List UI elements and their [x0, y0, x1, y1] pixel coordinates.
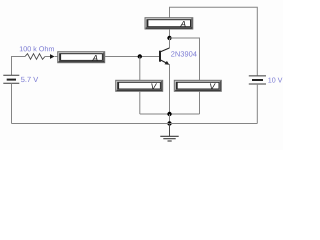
- resistor R1: [25, 54, 45, 60]
- node: bottom rail junction dot: [167, 121, 171, 125]
- wire: collector node down to transistor collector: [169, 38, 171, 48]
- wire: right riser lower: [256, 84, 258, 124]
- wire: left riser top and base-row corner: [12, 57, 26, 76]
- wire: voltmeter V1 bottom lead: [139, 91, 141, 114]
- node: emitter/link junction dot: [167, 112, 171, 116]
- wire: voltmeter V2 bottom lead: [199, 91, 201, 114]
- wire: left riser lower: [11, 83, 13, 123]
- label: battery value 5.7 V: [21, 77, 38, 82]
- wire: voltmeter link row: [140, 113, 200, 115]
- label: meter letter: [92, 55, 98, 61]
- label: meter letter: [210, 83, 216, 89]
- node: base junction dot: [138, 54, 142, 58]
- transistor Q1 2N3904: [159, 48, 169, 65]
- label: meter letter: [151, 83, 157, 89]
- current direction arrow into ammeter A1: [50, 54, 55, 59]
- wire: ammeter A2 bottom lead to collector node: [169, 29, 171, 38]
- label: resistor value 100 k Ohm: [20, 46, 54, 51]
- wire: emitter vertical: [169, 64, 171, 114]
- node: collector junction dot: [167, 36, 171, 40]
- battery V1 5.7 V: [3, 75, 19, 83]
- ground: [160, 124, 178, 142]
- wire: collector node to voltmeter V2 top lead: [170, 38, 200, 81]
- wire: top rail from ammeter A2 to right riser: [170, 7, 258, 75]
- wire: link row down to bottom rail: [169, 114, 171, 124]
- ammeter A2 (collector current): [145, 18, 193, 29]
- voltmeter V2 (V_CE): [174, 80, 221, 91]
- wire: voltmeter V1 top lead: [139, 57, 141, 81]
- wire: bottom rail: [12, 123, 258, 125]
- label: transistor type 2N3904: [171, 51, 197, 56]
- ammeter A1 (base current): [58, 52, 105, 63]
- wire: resistor to current arrow: [45, 56, 50, 58]
- label: battery value 10 V: [268, 78, 282, 83]
- wire: ammeter A1 to transistor base: [105, 56, 159, 58]
- voltmeter V1 (V_BE): [116, 80, 163, 91]
- label: meter letter: [180, 21, 186, 27]
- wire: arrow to ammeter A1: [55, 56, 58, 58]
- battery V2 10 V: [249, 76, 266, 84]
